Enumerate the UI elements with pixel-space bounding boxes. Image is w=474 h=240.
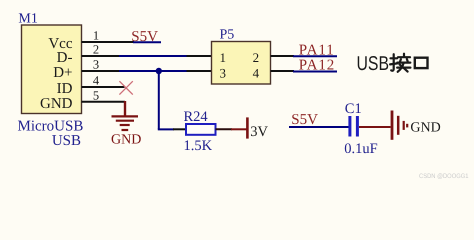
designator P5: [220, 28, 235, 43]
svg-text:PA11: PA11: [299, 42, 335, 58]
power port 3V bar: [246, 117, 249, 138]
annotation hanzi jie (接): [390, 54, 410, 72]
P5 pin 2 lead: [271, 55, 295, 57]
svg-text:R24: R24: [184, 109, 209, 125]
R24 left lead: [173, 128, 186, 130]
pin number 1: [93, 29, 99, 43]
pin number 3: [93, 58, 99, 72]
designator M1: [18, 12, 37, 27]
power ground bar 4: [406, 124, 408, 128]
power label GND: [410, 121, 440, 136]
part type MicroUSB: [18, 119, 84, 135]
connector P5 body: [212, 42, 271, 85]
value 0.1uF: [344, 141, 377, 157]
P5 pin number 3: [219, 65, 226, 80]
ground lead vertical: [124, 101, 126, 116]
net label S5V (bottom): [291, 112, 318, 128]
svg-text:GND: GND: [111, 132, 141, 147]
net label PA11: [299, 42, 335, 58]
net label PA12: [299, 57, 335, 73]
svg-text:2: 2: [253, 50, 260, 65]
P5 pin number 4: [253, 65, 260, 80]
pin name ID: [57, 81, 73, 97]
svg-text:D-: D-: [57, 50, 73, 66]
svg-text:USB: USB: [357, 53, 390, 75]
svg-text:S5V: S5V: [131, 29, 158, 45]
part type USB: [52, 133, 81, 149]
pin name D+: [53, 65, 72, 81]
earth ground bar 4: [122, 129, 129, 131]
wire horizontal to R24: [158, 128, 174, 130]
P5 pin 1 lead: [187, 55, 212, 57]
wire PA11: [293, 55, 337, 57]
svg-text:1: 1: [219, 50, 226, 65]
capacitor C1 plate left: [348, 116, 351, 137]
designator R24: [184, 109, 209, 125]
wire D- net: [119, 55, 187, 57]
power ground bar 3: [403, 121, 405, 130]
P5 pin number 1: [219, 50, 226, 65]
svg-text:4: 4: [93, 74, 100, 88]
wire D+ net: [119, 70, 187, 72]
wire vertical from D+ junction: [158, 71, 160, 129]
no-ERC cross: [119, 81, 132, 94]
svg-text:ID: ID: [57, 81, 73, 97]
svg-text:0.1uF: 0.1uF: [344, 141, 377, 157]
annotation hanzi kou (口): [415, 58, 428, 68]
svg-text:5: 5: [93, 88, 99, 102]
connector M1 body: [22, 25, 82, 114]
svg-text:GND: GND: [410, 121, 440, 136]
svg-text:USB: USB: [52, 133, 81, 149]
svg-text:3: 3: [93, 58, 99, 72]
svg-text:2: 2: [93, 43, 99, 57]
P5 pin 4 lead: [271, 70, 295, 72]
value 1.5K: [184, 138, 213, 154]
annotation USB text: [357, 53, 390, 75]
svg-text:P5: P5: [220, 28, 235, 43]
P5 pin 3 lead: [187, 70, 212, 72]
svg-text:3V: 3V: [250, 124, 268, 140]
ground label GND: [111, 132, 141, 147]
pin 1 lead (Vcc): [82, 41, 135, 43]
P5 pin number 2: [253, 50, 260, 65]
pin name Vcc: [48, 36, 72, 52]
svg-text:M1: M1: [18, 12, 37, 27]
power label 3V: [250, 124, 268, 140]
power ground bar 2: [397, 116, 400, 135]
earth ground bar 3: [120, 124, 130, 126]
pin name GND: [40, 96, 73, 112]
pin 3 lead (D+): [82, 70, 121, 72]
wire to 3V port: [231, 128, 247, 130]
wire PA12: [293, 71, 337, 73]
wire S5V to C1: [289, 126, 349, 128]
watermark: [419, 173, 469, 180]
power ground bar 1: [391, 111, 394, 140]
svg-text:S5V: S5V: [291, 112, 318, 128]
net label S5V: [131, 29, 158, 45]
earth ground bar 2: [116, 120, 134, 122]
resistor R24 body: [186, 124, 216, 135]
pin number 2: [93, 43, 99, 57]
pin 4 lead (ID): [82, 86, 125, 88]
svg-text:CSDN @DOOGG1: CSDN @DOOGG1: [419, 173, 469, 180]
wire C1 to GND port: [359, 126, 391, 128]
svg-text:PA12: PA12: [299, 57, 335, 73]
earth ground bar 1: [112, 115, 139, 117]
svg-text:3: 3: [219, 65, 226, 80]
svg-text:D+: D+: [53, 65, 72, 81]
svg-text:4: 4: [253, 65, 260, 80]
designator C1: [345, 101, 362, 117]
junction dot: [156, 68, 162, 74]
pin name D-: [57, 50, 73, 66]
svg-text:C1: C1: [345, 101, 362, 117]
capacitor C1 plate right: [356, 116, 359, 137]
pin 5 lead (GND): [82, 101, 125, 103]
pin number 5: [93, 88, 99, 102]
svg-text:GND: GND: [40, 96, 73, 112]
wire S5V stub: [133, 41, 161, 43]
svg-text:1.5K: 1.5K: [184, 138, 213, 154]
pin number 4: [93, 74, 100, 88]
svg-text:1: 1: [93, 29, 99, 43]
pin 2 lead (D-): [82, 55, 121, 57]
R24 right lead: [216, 128, 233, 130]
